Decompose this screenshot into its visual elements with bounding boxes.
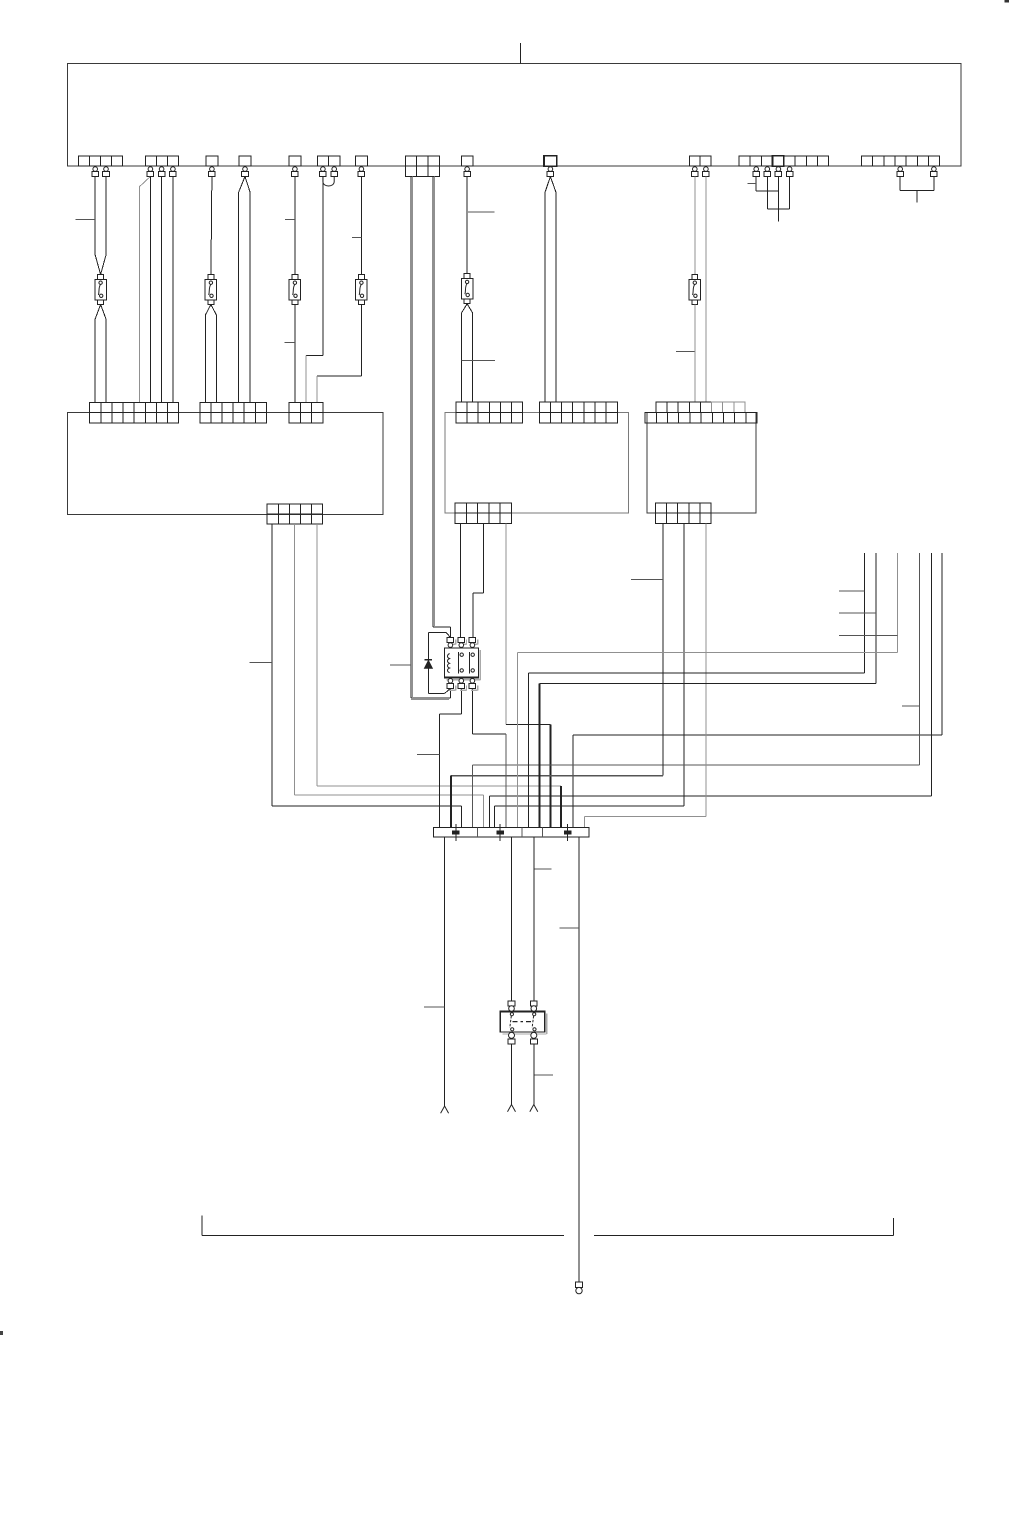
- pin G10-1: [547, 167, 554, 177]
- pin G12-5: [786, 167, 793, 177]
- pin G2-2: [158, 167, 165, 177]
- net N5 strip F-3 to relay K1 top pin 3: [483, 523, 485, 592]
- wire G12 bus stub: [777, 209, 779, 222]
- connector G7 (1-way): [356, 156, 368, 166]
- wire W3 bar to switch S1 pin 2: [533, 837, 535, 1001]
- bottom connector pin: [576, 1282, 583, 1294]
- connector G11 (2-way): [689, 156, 700, 166]
- leader tick wire W1: [424, 1006, 445, 1008]
- leader tick wire G5 lower: [284, 342, 295, 344]
- net N7 relay K1 bottom pin 2 to bar: [460, 688, 462, 714]
- connector strip E (U2 top): [539, 402, 617, 423]
- wire F4 to strip C: [360, 305, 362, 377]
- wire W2 switch S1 to harness end 2: [511, 1044, 513, 1104]
- leader tick V1: [839, 590, 864, 592]
- switch S1 top pin 2: [531, 1001, 538, 1011]
- arrowhead wire W3: [530, 1105, 538, 1112]
- net N11 strip H-1 to bar: [662, 523, 664, 775]
- switch S1 bottom pin 2: [530, 1032, 537, 1044]
- pin G9-1: [464, 167, 471, 177]
- pin G1-3: [103, 167, 110, 177]
- wire G13 bus pins: [899, 177, 901, 191]
- leader tick feeder G8-1: [390, 664, 411, 666]
- wire G2-1 branch diagonal: [139, 177, 150, 187]
- connector strip B (U1 top): [200, 402, 266, 423]
- net N10 feeder G8-3 to relay K1 top pin 1: [433, 626, 450, 628]
- wire F1 to strip A: [95, 305, 100, 320]
- wire G3 to fuse F2: [211, 177, 212, 275]
- connector strip G (U3 top): [645, 402, 757, 423]
- relay K1 contact 1: [458, 652, 460, 674]
- wire G2-1 vertical: [150, 177, 152, 403]
- pin G11-1: [692, 167, 699, 177]
- connector strip C (U1 top): [289, 402, 323, 423]
- wire G12 bus pins 3+5: [766, 177, 768, 209]
- pin G6-1: [320, 167, 327, 177]
- switch S1 linkage dash-dot: [513, 1021, 534, 1023]
- splice mark 2: [497, 824, 504, 841]
- wire G11-1 to fuse F6: [694, 177, 696, 275]
- relay K1 body bottom bold edge: [445, 676, 479, 678]
- wire G2-3 vertical: [172, 177, 174, 403]
- leader tick net N1a: [250, 662, 273, 664]
- leader tick wire G7: [352, 236, 362, 238]
- net N6 strip F-5 to bar via bold riser: [505, 523, 507, 724]
- connector G4 (1-way): [239, 156, 251, 166]
- net N14 far-right vertical V2 to bar: [875, 553, 877, 684]
- net N1b bar to strip H-2: [494, 806, 496, 828]
- wire G12 bus pins 2+4: [755, 177, 757, 192]
- pin G4-1: [242, 167, 249, 177]
- fuse F6: [689, 275, 700, 305]
- wire F6 to strip G: [694, 305, 696, 403]
- pin G12-2: [753, 167, 760, 177]
- pin G3-1: [209, 167, 216, 177]
- harness bracket: [202, 1235, 564, 1237]
- arrowhead wire W2: [508, 1105, 516, 1112]
- pin G13-7: [931, 167, 938, 177]
- leader tick V2: [839, 612, 876, 614]
- wire W1 bar to harness end 1: [444, 837, 446, 1106]
- diode D1 symbol: [425, 659, 433, 661]
- leader tick wire W3: [534, 868, 551, 870]
- switch S1 blade 1: [510, 1013, 513, 1016]
- leader tick wire G11-1: [676, 350, 695, 352]
- connector strip H (U3 bottom): [656, 503, 712, 524]
- pin G6-2: [331, 167, 338, 177]
- wire G7 to fuse F4: [360, 177, 362, 275]
- diode D1 branch: [446, 632, 450, 637]
- net N15 far-right vertical V3 to bar: [897, 553, 899, 653]
- relay K1 coil symbol: [448, 654, 450, 673]
- pin G12-4: [775, 167, 782, 177]
- wire G6 to strip C: [322, 177, 324, 356]
- connector G2 (3-way): [145, 156, 156, 166]
- wire F2 to strip B: [205, 305, 211, 316]
- connector G3 (1-way): [206, 156, 218, 166]
- relay K1 top pin 1: [447, 637, 456, 647]
- leader tick wire G9: [468, 211, 495, 213]
- leader tick net N7: [417, 754, 439, 756]
- leader tick wire F5 pair: [462, 359, 495, 361]
- leader tick wire W3 lower: [534, 1074, 553, 1076]
- switch S1 bottom pin 1: [508, 1032, 515, 1044]
- wire F3 to strip C: [294, 305, 296, 403]
- wire W3 switch S1 to harness end 3: [533, 1044, 535, 1104]
- net N17 bar riser to far-right vertical V5: [488, 796, 490, 828]
- connector G5 (1-way): [289, 156, 301, 166]
- relay K1 body: [445, 648, 481, 680]
- splice mark 3: [564, 824, 571, 841]
- leader tick wire G5 upper: [285, 218, 295, 220]
- net N4 strip F-1 to relay K1 coil (top pin 2): [460, 523, 462, 637]
- net N1a strip I-1 to bar: [271, 524, 273, 806]
- fuse F5: [461, 274, 472, 304]
- wire G10 pair to strip E: [545, 177, 551, 194]
- control unit box U2 (middle): [445, 413, 629, 514]
- fuse F4: [356, 275, 367, 305]
- pin G2-3: [170, 167, 177, 177]
- net N3 strip I-5 to bar: [316, 524, 318, 786]
- pin G11-2: [703, 167, 710, 177]
- switch S1 top pin 1: [508, 1001, 515, 1011]
- leader tick wire G1: [75, 219, 95, 221]
- net N9 relay K1 bottom pin 1 to feeder G8-1: [449, 688, 451, 698]
- connector G12 (8-way strip): [739, 156, 829, 166]
- pin G7-1: [358, 167, 365, 177]
- connector G1 (4-way): [78, 156, 89, 166]
- net N2 strip I-3 to bar: [293, 524, 295, 795]
- arrowhead wire W1: [441, 1106, 449, 1113]
- connector strip D (U2 top): [456, 402, 523, 423]
- relay K1 bottom pin 3: [469, 679, 478, 691]
- leader tick net N11: [631, 578, 663, 580]
- relay K1 top pin 2: [458, 637, 467, 647]
- net N12 strip H-3 to bar: [705, 523, 707, 816]
- connector G9 (1-way): [461, 156, 473, 166]
- page edge mark left: [0, 1332, 3, 1335]
- control unit box U3 (right): [647, 413, 756, 514]
- wire G8-3 long feeder: [432, 177, 434, 628]
- switch S1 body: [500, 1011, 546, 1034]
- fuse F3: [289, 275, 300, 305]
- connector strip I (U1 bottom): [267, 504, 322, 524]
- relay K1 contact 2: [469, 652, 471, 674]
- pin G13-4: [897, 167, 904, 177]
- joint connector bar: [434, 828, 589, 837]
- relay K1 top pin 3: [469, 637, 478, 647]
- pin G12-3: [764, 167, 771, 177]
- net N8 relay K1 bottom pin 3 to bar: [472, 688, 474, 734]
- pin G5-1: [292, 167, 299, 177]
- wire G8-1 long feeder: [410, 177, 412, 699]
- wire G1 pair upper: [94, 177, 96, 256]
- leader tick wire W4: [560, 927, 579, 929]
- junction block J/B (top box): [67, 63, 960, 166]
- wire W2 bar to switch S1 pin 1: [511, 837, 513, 1001]
- connector strip A (U1 top): [90, 402, 179, 423]
- net N16 far-right vertical V4 to bar: [919, 553, 921, 765]
- leader tick V3: [839, 635, 897, 637]
- connector G13 (7-way strip): [862, 156, 873, 166]
- net N13 far-right vertical V1 to bar: [864, 553, 866, 673]
- wire G5 to fuse F3: [294, 177, 296, 275]
- wire W4 bar to bottom connector: [578, 837, 580, 1282]
- relay K1 bottom pin 2: [458, 679, 467, 691]
- connector G8 (3x2 grid): [405, 156, 439, 177]
- wire G11-2 to strip G: [705, 177, 707, 403]
- page corner mark top-right: [1005, 0, 1009, 2]
- connector G6 (2-way): [317, 156, 328, 166]
- connector G10 (1-way, bold): [544, 156, 557, 166]
- wire G9 to fuse F5: [466, 177, 468, 274]
- fuse F2: [205, 275, 216, 305]
- wire G4 pair to strip B: [239, 177, 245, 193]
- pin G2-1: [147, 167, 154, 177]
- leader tick G12 bus: [748, 182, 757, 184]
- leader tick net N16: [902, 705, 920, 707]
- relay K1 bottom pin 1: [447, 679, 456, 691]
- switch S1 blade 2: [533, 1013, 536, 1016]
- jumper G6 pins: [323, 177, 334, 187]
- wire F5 pair to strip D: [462, 304, 468, 313]
- fuse F1: [95, 275, 106, 305]
- node stub at top of junction block: [519, 43, 521, 63]
- wire G2-2 vertical: [161, 177, 163, 403]
- splice mark 1: [453, 824, 460, 841]
- pin G1-2: [92, 167, 99, 177]
- connector strip F (U2 bottom): [455, 503, 512, 524]
- wire G13 bus stub: [916, 191, 918, 203]
- net N18 bar to far-right vertical V6: [572, 735, 574, 828]
- control unit box U1 (left): [67, 413, 383, 515]
